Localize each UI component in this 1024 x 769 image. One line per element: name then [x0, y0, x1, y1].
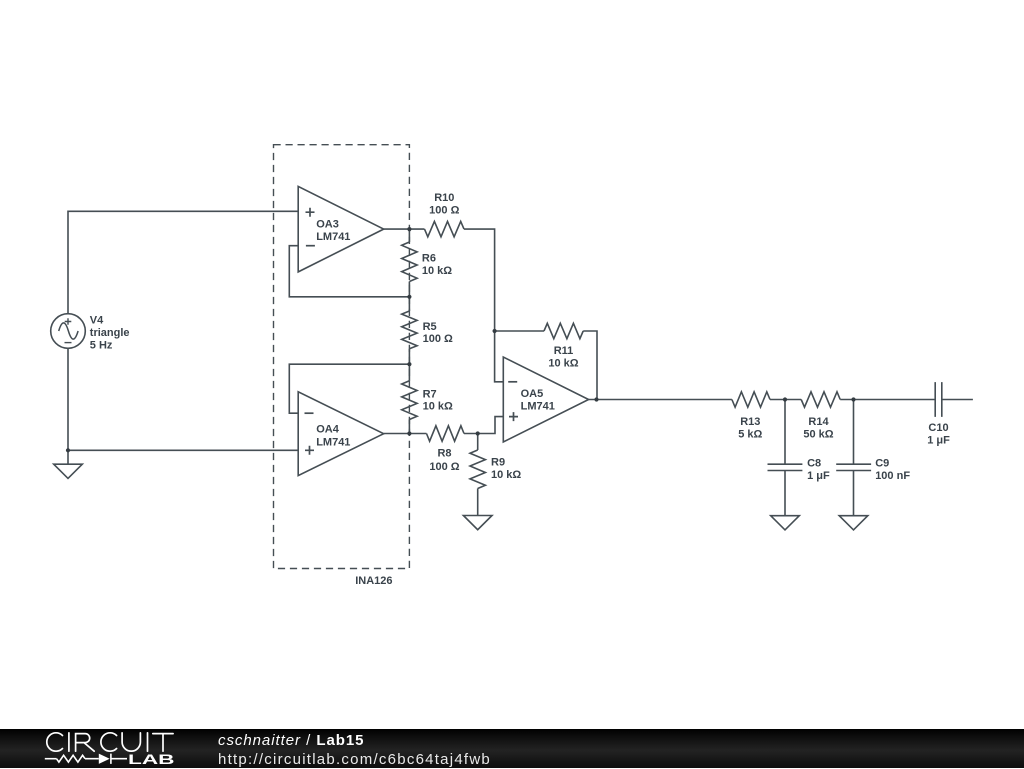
svg-text:100 Ω: 100 Ω: [423, 333, 453, 345]
svg-text:100 nF: 100 nF: [875, 470, 910, 482]
svg-text:LM741: LM741: [521, 401, 555, 413]
svg-text:100 Ω: 100 Ω: [429, 205, 459, 217]
svg-text:LAB: LAB: [128, 752, 175, 767]
svg-text:C9: C9: [875, 458, 889, 470]
svg-text:R10: R10: [434, 192, 454, 204]
svg-text:OA4: OA4: [316, 424, 340, 436]
svg-text:LM741: LM741: [316, 437, 350, 449]
svg-text:triangle: triangle: [90, 327, 130, 339]
svg-text:R9: R9: [491, 456, 505, 468]
svg-text:R5: R5: [423, 321, 437, 333]
svg-text:C10: C10: [928, 422, 948, 434]
svg-text:5 Hz: 5 Hz: [90, 339, 113, 351]
svg-text:R8: R8: [437, 448, 451, 460]
svg-text:10 kΩ: 10 kΩ: [548, 358, 578, 370]
svg-text:R11: R11: [554, 345, 574, 357]
svg-text:10 kΩ: 10 kΩ: [422, 265, 452, 277]
svg-text:R6: R6: [422, 252, 436, 264]
svg-text:LM741: LM741: [316, 231, 350, 243]
svg-text:10 kΩ: 10 kΩ: [423, 401, 453, 413]
svg-text:5 kΩ: 5 kΩ: [738, 429, 762, 441]
svg-text:V4: V4: [90, 314, 104, 326]
svg-text:50 kΩ: 50 kΩ: [803, 429, 833, 441]
svg-text:R14: R14: [808, 416, 829, 428]
svg-text:100 Ω: 100 Ω: [429, 461, 459, 473]
svg-text:10 kΩ: 10 kΩ: [491, 469, 521, 481]
svg-text:1 μF: 1 μF: [927, 434, 950, 446]
svg-text:R13: R13: [740, 416, 760, 428]
svg-text:1 μF: 1 μF: [807, 470, 830, 482]
svg-text:C8: C8: [807, 458, 821, 470]
svg-text:R7: R7: [423, 389, 437, 401]
svg-text:INA126: INA126: [355, 575, 392, 587]
svg-text:OA3: OA3: [316, 218, 339, 230]
svg-text:OA5: OA5: [521, 388, 544, 400]
